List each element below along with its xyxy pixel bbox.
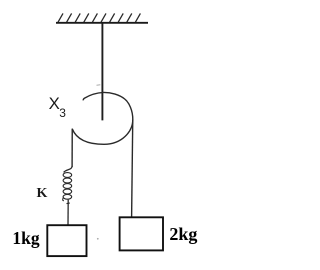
- spring bottom tick: [67, 202, 70, 205]
- svg-text:3: 3: [59, 106, 66, 120]
- left string (pulley to spring): [71, 129, 73, 167]
- ceiling line: [56, 22, 148, 24]
- support rod wire: [101, 24, 103, 121]
- spring K coil loops: [63, 173, 72, 200]
- mass box 1kg: [47, 225, 86, 256]
- spring K top hook: [64, 166, 73, 172]
- faint dash artifact: [97, 84, 101, 87]
- svg-text:K: K: [37, 186, 48, 201]
- mass box 2kg: [120, 217, 163, 250]
- svg-text:1kg: 1kg: [12, 228, 39, 248]
- pulley wheel: [72, 92, 133, 144]
- right string (pulley to 2kg mass): [132, 120, 133, 218]
- faint dot artifact: [97, 238, 99, 240]
- ceiling hatching: [58, 13, 140, 22]
- spring bottom wire to 1kg mass: [67, 200, 69, 226]
- spring end curl: [63, 198, 64, 201]
- svg-text:X: X: [49, 94, 60, 113]
- svg-text:2kg: 2kg: [169, 224, 197, 244]
